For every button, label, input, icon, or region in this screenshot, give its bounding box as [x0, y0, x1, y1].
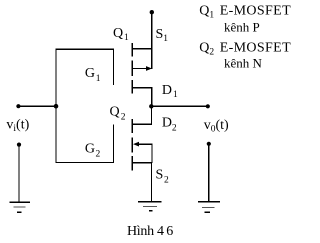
- svg-text:G: G: [85, 66, 95, 81]
- svg-text:2: 2: [164, 176, 169, 186]
- svg-text:1: 1: [173, 90, 178, 100]
- svg-text:2: 2: [96, 150, 101, 160]
- svg-text:Hình 4: Hình 4: [127, 224, 164, 239]
- svg-text:D: D: [162, 116, 172, 131]
- svg-text:2: 2: [121, 113, 126, 123]
- svg-text:kênh N: kênh N: [224, 56, 263, 71]
- svg-text:S: S: [156, 167, 164, 182]
- svg-text:S: S: [156, 27, 164, 42]
- svg-text:kênh P: kênh P: [224, 20, 260, 35]
- svg-text:Q1 E-MOSFET: Q1 E-MOSFET: [199, 4, 291, 21]
- svg-text:6: 6: [166, 224, 173, 239]
- svg-text:vi(t): vi(t): [6, 118, 29, 135]
- svg-text:v0(t): v0(t): [204, 118, 229, 135]
- svg-text:1: 1: [124, 33, 129, 43]
- svg-text:2: 2: [172, 124, 177, 134]
- svg-text:1: 1: [163, 34, 168, 44]
- svg-text:Q: Q: [113, 26, 123, 41]
- svg-text:Q: Q: [110, 105, 120, 120]
- svg-text:G: G: [85, 141, 95, 156]
- svg-text:D: D: [162, 83, 172, 98]
- svg-text:1: 1: [96, 74, 101, 84]
